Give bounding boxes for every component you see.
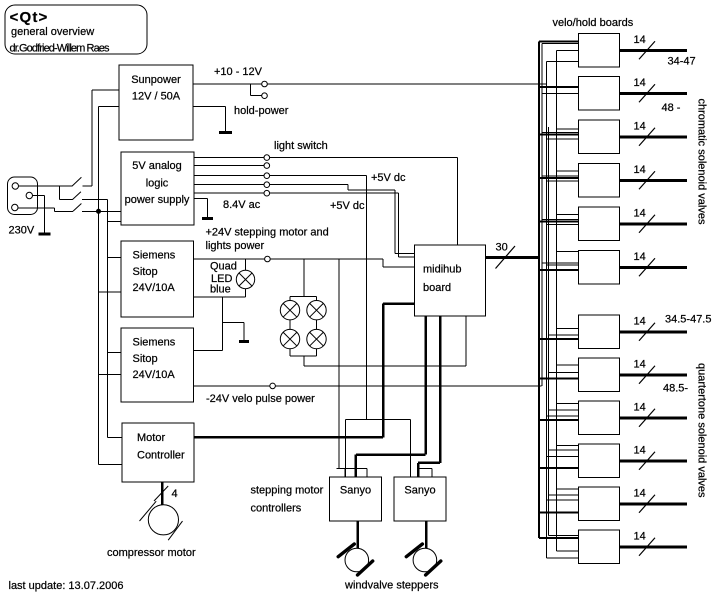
svg-text:34-47: 34-47 bbox=[668, 56, 696, 68]
svg-text:14: 14 bbox=[634, 487, 646, 499]
svg-text:4: 4 bbox=[172, 488, 178, 500]
svg-text:14: 14 bbox=[634, 530, 646, 542]
svg-text:controllers: controllers bbox=[251, 503, 302, 515]
svg-text:34.5-47.5: 34.5-47.5 bbox=[665, 314, 711, 326]
svg-text:14: 14 bbox=[634, 77, 646, 89]
svg-text:lights power: lights power bbox=[206, 240, 265, 252]
svg-text:<Qt>: <Qt> bbox=[10, 9, 49, 26]
svg-text:hold-power: hold-power bbox=[234, 105, 289, 117]
svg-text:general overview: general overview bbox=[11, 26, 94, 38]
svg-text:14: 14 bbox=[634, 401, 646, 413]
svg-text:Quad: Quad bbox=[210, 261, 237, 273]
svg-text:+24V stepping motor and: +24V stepping motor and bbox=[206, 227, 329, 239]
svg-text:power supply: power supply bbox=[125, 194, 190, 206]
svg-text:230V: 230V bbox=[9, 225, 35, 237]
svg-text:48 -: 48 - bbox=[662, 102, 681, 114]
svg-text:Sanyo: Sanyo bbox=[404, 485, 435, 497]
svg-text:velo/hold boards: velo/hold boards bbox=[553, 17, 634, 29]
svg-text:dr.Godfried-Willem Raes: dr.Godfried-Willem Raes bbox=[10, 43, 111, 55]
svg-text:12V / 50A: 12V / 50A bbox=[132, 91, 181, 103]
svg-text:Sitop: Sitop bbox=[133, 353, 158, 365]
svg-text:light switch: light switch bbox=[274, 140, 328, 152]
svg-text:Sitop: Sitop bbox=[133, 266, 158, 278]
svg-text:24V/10A: 24V/10A bbox=[133, 369, 176, 381]
svg-text:blue: blue bbox=[210, 284, 231, 296]
svg-text:windvalve steppers: windvalve steppers bbox=[344, 580, 439, 592]
svg-text:14: 14 bbox=[634, 315, 646, 327]
svg-text:14: 14 bbox=[634, 34, 646, 46]
svg-text:14: 14 bbox=[634, 207, 646, 219]
svg-text:14: 14 bbox=[634, 120, 646, 132]
svg-text:48.5-: 48.5- bbox=[663, 383, 688, 395]
svg-text:14: 14 bbox=[634, 251, 646, 263]
svg-text:Siemens: Siemens bbox=[133, 337, 176, 349]
svg-text:Motor: Motor bbox=[137, 432, 165, 444]
svg-text:+5V dc: +5V dc bbox=[330, 200, 365, 212]
svg-text:8.4V ac: 8.4V ac bbox=[223, 199, 261, 211]
svg-text:+5V dc: +5V dc bbox=[371, 172, 406, 184]
svg-text:quartertone solenoid valves: quartertone solenoid valves bbox=[696, 363, 708, 498]
svg-text:30: 30 bbox=[496, 242, 508, 254]
svg-text:14: 14 bbox=[634, 164, 646, 176]
svg-text:14: 14 bbox=[634, 444, 646, 456]
svg-text:stepping motor: stepping motor bbox=[251, 485, 324, 497]
svg-text:+10 - 12V: +10 - 12V bbox=[214, 66, 263, 78]
svg-text:Sanyo: Sanyo bbox=[340, 485, 371, 497]
svg-text:-24V velo pulse power: -24V velo pulse power bbox=[206, 393, 315, 405]
svg-text:Sunpower: Sunpower bbox=[131, 74, 181, 86]
svg-text:Controller: Controller bbox=[137, 450, 185, 462]
svg-text:14: 14 bbox=[634, 358, 646, 370]
svg-text:compressor motor: compressor motor bbox=[107, 547, 196, 559]
svg-text:Siemens: Siemens bbox=[133, 250, 176, 262]
svg-text:chromatic solenoid valves: chromatic solenoid valves bbox=[696, 99, 708, 225]
svg-text:24V/10A: 24V/10A bbox=[133, 282, 176, 294]
svg-text:midihub: midihub bbox=[423, 264, 462, 276]
svg-text:last update: 13.07.2006: last update: 13.07.2006 bbox=[9, 580, 124, 592]
svg-text:board: board bbox=[423, 282, 451, 294]
svg-text:5V analog: 5V analog bbox=[132, 160, 182, 172]
svg-text:logic: logic bbox=[146, 178, 169, 190]
